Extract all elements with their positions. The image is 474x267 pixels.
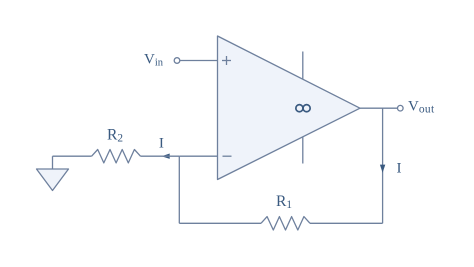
current arrow I (left) — [162, 154, 170, 159]
op-amp non-inverting input marker + — [222, 56, 231, 65]
op-amp negative supply pin — [302, 137, 304, 164]
current arrow I (down) — [380, 165, 385, 173]
svg-text:I: I — [396, 160, 401, 177]
svg-text:Vout: Vout — [408, 98, 435, 115]
resistor R2 — [92, 150, 141, 163]
wire ground to R2 — [53, 155, 92, 157]
svg-text:I: I — [159, 135, 164, 152]
wire feedback to - input — [179, 155, 217, 157]
wire output branch down — [382, 108, 384, 223]
svg-text:R1: R1 — [276, 193, 292, 211]
wire bottom left — [179, 222, 261, 224]
wire R2 to - input junction — [141, 155, 180, 157]
svg-text:Vin: Vin — [144, 51, 164, 68]
wire Vin to + input — [180, 60, 218, 62]
input terminal — [174, 58, 180, 64]
wire bottom right — [310, 222, 383, 224]
op-amp inverting input marker - — [223, 155, 232, 157]
wire feedback riser — [178, 156, 180, 223]
wire ground drop — [52, 156, 54, 169]
svg-text:R2: R2 — [107, 126, 123, 144]
resistor R1 — [261, 217, 310, 230]
output terminal — [398, 105, 404, 111]
output wire — [360, 107, 397, 109]
op-amp U1 — [218, 36, 361, 180]
op-amp gain label infinity — [296, 105, 310, 112]
ground — [37, 169, 69, 191]
op-amp positive supply pin — [302, 52, 304, 80]
